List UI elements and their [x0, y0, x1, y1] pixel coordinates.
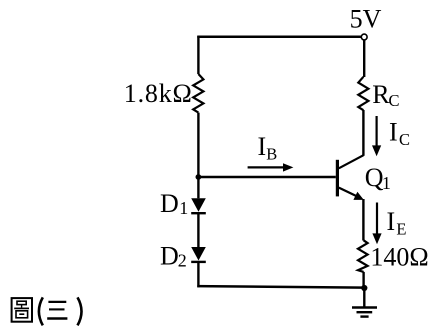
svg-text:140Ω: 140Ω [370, 243, 428, 272]
caption: 三 glyph (drawn) [47, 302, 67, 319]
diode D2 [191, 247, 206, 261]
svg-text:D: D [160, 189, 179, 218]
svg-text:I: I [389, 118, 398, 147]
svg-text:1: 1 [382, 173, 391, 193]
ground: stem [363, 288, 365, 307]
wire: between D1 and D2 [197, 214, 199, 247]
resistor RC (zigzag) [358, 77, 368, 110]
wire: bottom rail [197, 286, 364, 288]
caption: 圖 glyph (drawn) [12, 298, 32, 322]
transistor Q1: emitter lead with arrow [339, 188, 357, 197]
svg-text:1: 1 [179, 198, 188, 218]
caption: ( paren [39, 297, 43, 325]
wire: right branch top (terminal to RC) [363, 40, 365, 78]
arrow: IB current direction [248, 166, 283, 168]
wire: base wire to transistor [198, 176, 335, 178]
node: junction dot at base wire [196, 174, 202, 180]
transistor Q1: base bar [336, 160, 339, 197]
wire: left branch between resistor and base node [197, 113, 199, 177]
svg-text:C: C [399, 130, 410, 149]
svg-text:I: I [387, 207, 396, 236]
wire: left branch top vertical [197, 36, 199, 74]
node: junction dot at ground wire [361, 285, 367, 291]
svg-text:5V: 5V [350, 5, 382, 34]
svg-text:I: I [258, 132, 267, 161]
caption: ) paren [78, 297, 82, 325]
svg-text:Q: Q [365, 163, 384, 192]
svg-text:E: E [396, 220, 406, 239]
terminal: 5V open circle [361, 34, 367, 40]
ground: bars [352, 306, 377, 308]
svg-text:B: B [266, 144, 277, 163]
wire: emitter vertical to 140 ohm [362, 199, 364, 241]
resistor 1.8kΩ (zigzag) [193, 74, 203, 113]
svg-text:1.8kΩ: 1.8kΩ [124, 79, 193, 108]
svg-text:D: D [160, 242, 179, 271]
diode D1 [191, 198, 206, 212]
svg-text:2: 2 [178, 251, 187, 271]
wire: below D2 to bottom rail [197, 263, 199, 288]
svg-text:C: C [389, 91, 400, 110]
arrow: IE current [376, 203, 378, 235]
wire: left branch node to diode D1 [197, 177, 199, 198]
wire: collector vertical to RC [362, 110, 364, 156]
resistor 140Ω (zigzag) [358, 240, 368, 272]
wire: right branch bottom vertical [362, 272, 364, 289]
transistor Q1: collector lead [339, 155, 364, 168]
wire: top rail from left branch to 5V terminal [197, 36, 361, 39]
arrow: IC current [376, 116, 378, 147]
